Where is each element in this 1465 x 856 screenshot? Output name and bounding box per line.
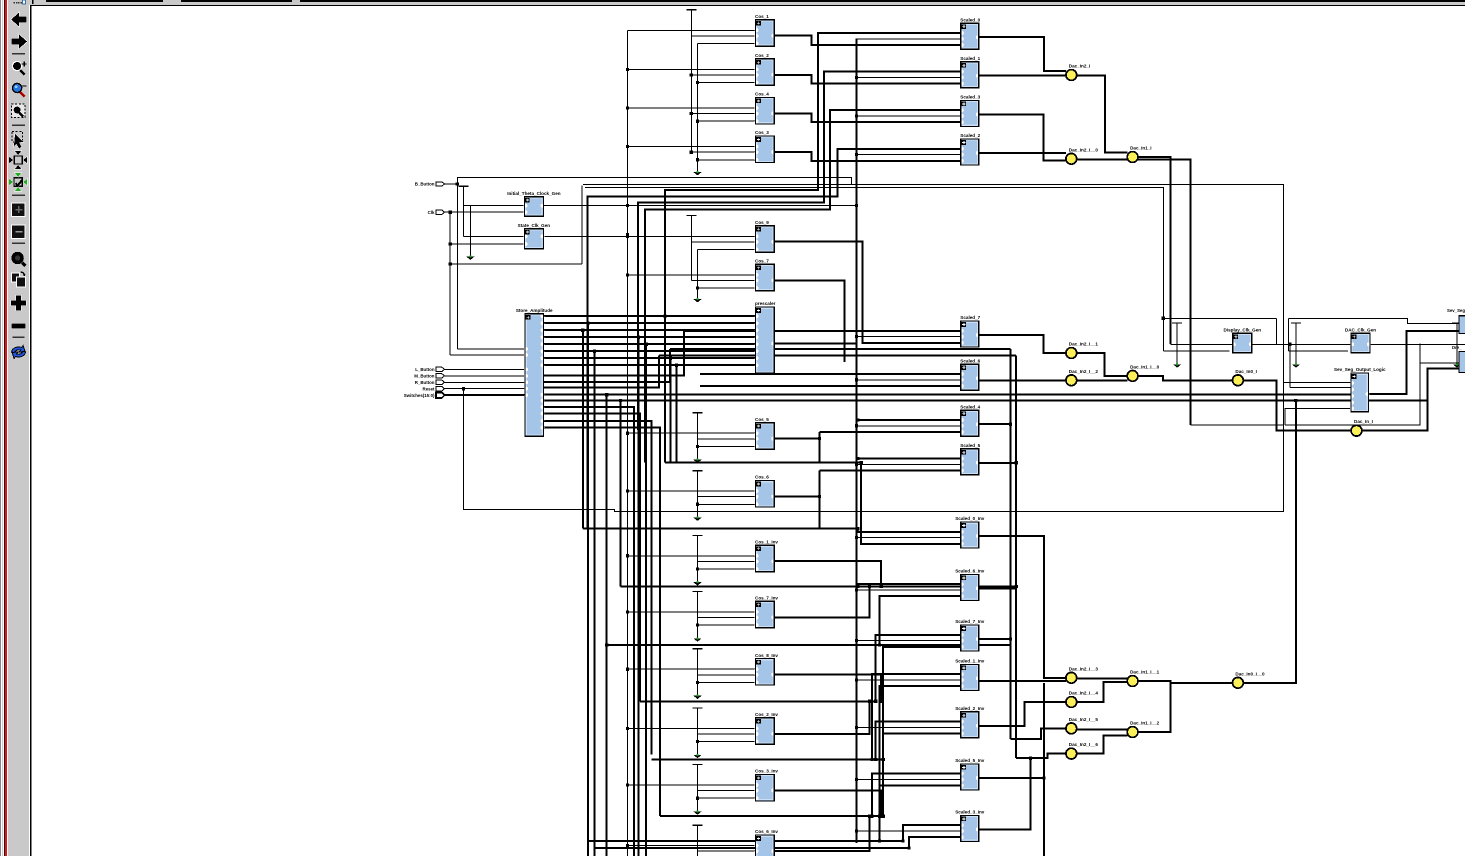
svg-text:Scaled_6: Scaled_6	[960, 358, 980, 363]
wire rail to Cos_3_Inv pin3	[698, 797, 756, 799]
wire rail to Cos_2_Inv pin2	[698, 733, 756, 735]
wire rail with arrow top group	[693, 44, 701, 176]
wire rail to Cos_7_Inv pin2	[698, 617, 756, 619]
wire trunk y=528.7	[583, 528, 858, 530]
block Sev_Seg_Output_Logic	[1334, 367, 1386, 412]
wire branch vertical x=582.8	[582, 330, 584, 529]
wire clock to Scaled_Inv pin2	[856, 779, 960, 781]
svg-text:Dac_In2_I: Dac_In2_I	[1069, 64, 1090, 69]
wire display clock to sevseg pin2	[1289, 344, 1291, 387]
svg-text:Dac_In1_I: Dac_In1_I	[1130, 146, 1151, 151]
svg-text:Dac_In2_I__4: Dac_In2_I__4	[1069, 691, 1099, 696]
toolbar icon: black square plus	[12, 203, 26, 217]
wire y=318.3 dac box	[1289, 317, 1408, 319]
wire Dac_In2_I__3 to Dac_In1_I__1	[1077, 677, 1128, 679]
wire store out to prescaler pin 7	[544, 364, 756, 366]
svg-text:Cos_3_Inv: Cos_3_Inv	[755, 769, 778, 774]
wire staircase to Scaled_1 pin1	[638, 72, 961, 430]
wire clock to Cos_3_Inv pin1	[628, 784, 756, 786]
wire Scaled_0 output	[979, 37, 1066, 71]
wire T-rail Cos_1_Inv	[693, 535, 703, 585]
block Scaled_7	[960, 315, 981, 347]
wire trunk to Scaled_Inv pin3	[883, 647, 961, 760]
junction Reset wire	[462, 387, 465, 390]
svg-text:State_Clk_Gen: State_Clk_Gen	[518, 223, 551, 228]
toolbar icon: refresh	[12, 346, 26, 359]
wire Cos_5 output	[774, 438, 819, 440]
IO marker Dac_In0_I	[1233, 369, 1257, 386]
IO marker Dac_In1_I__2	[1127, 721, 1159, 738]
wire clock to Cos_1_Inv pin1	[628, 555, 756, 557]
block Scaled_1	[960, 56, 981, 88]
junction trunk2	[1294, 399, 1297, 402]
svg-text:Cos_2: Cos_2	[755, 53, 769, 58]
wire into Store_Amplitude upper pin2	[450, 354, 525, 356]
wire T-rail right edge	[1452, 323, 1462, 368]
wire to Scaled_6_Inv pin3	[880, 596, 961, 645]
svg-text:Dac_In1_I__2: Dac_In1_I__2	[1130, 721, 1160, 726]
block Scaled_2_Inv	[955, 706, 985, 738]
wire T-rail Cos_2_Inv	[693, 708, 703, 758]
wire rail to Cos_1_Inv pin2	[698, 560, 756, 562]
wire prescaler output	[774, 343, 856, 345]
wire Dac_In0_I__0 up right	[1243, 400, 1296, 683]
wire clock to Scaled_2 pin2	[856, 154, 960, 156]
wire rail to Cos_2 pin2	[691, 74, 755, 76]
wire Scaled_3 output to Dac_In2_I__0	[979, 114, 1066, 160]
wire Scaled_7_Inv output	[979, 638, 1011, 640]
wire clock to Cos_7_Inv pin1	[628, 611, 756, 613]
wire sevseg pin5	[1285, 409, 1351, 426]
wire clock to Scaled_Inv pin2	[856, 830, 960, 832]
wire trunk to Scaled_Inv pin3	[880, 786, 961, 841]
toolbar icon: zoom out	[13, 83, 27, 96]
small blue icon	[22, 0, 26, 5]
wire along y=264	[450, 263, 582, 265]
IO marker Dac_In_I	[1351, 419, 1373, 436]
wire Cos_1_Inv output	[774, 561, 881, 586]
svg-text:Cos_7_Inv: Cos_7_Inv	[755, 596, 778, 601]
svg-text:L_Button: L_Button	[415, 367, 435, 372]
block Scaled_0	[960, 17, 981, 49]
block Scaled_7_Inv	[955, 619, 985, 651]
svg-text:Scaled_5_Inv: Scaled_5_Inv	[955, 758, 985, 763]
svg-text:Scaled_2_Inv: Scaled_2_Inv	[955, 706, 985, 711]
svg-text:prescaler: prescaler	[755, 301, 776, 306]
block Cos_5	[755, 417, 775, 449]
wire Dac_In2_I__4 to Dac_In1_I__1	[1077, 682, 1128, 702]
wire vertical x=1043.9 lower	[1043, 683, 1045, 856]
wire clock to Cos_2_Inv pin1	[628, 727, 756, 729]
wire rail to Cos_2 pin3	[698, 82, 756, 84]
wire trunk to Scaled_Inv pin1	[903, 825, 961, 841]
IO marker Dac_In2_I__4	[1066, 691, 1098, 708]
wire Dac_In2_I__6 to Dac_In1_I__2	[1077, 736, 1128, 754]
wire Cos_6 output	[774, 496, 819, 498]
wire B_Button vertical	[456, 184, 458, 349]
wire rail to Cos_7_Inv pin3	[698, 624, 756, 626]
svg-text:Dac_In2_I__5: Dac_In2_I__5	[1069, 717, 1099, 722]
svg-text:Cos_8_Inv: Cos_8_Inv	[755, 653, 778, 658]
wire rail to Cos_6_Inv pin2	[698, 850, 756, 852]
wire store out y=420.9	[544, 421, 652, 755]
wire prescaler input 1	[560, 322, 756, 324]
wire trunk to Scaled_0_Inv pin1	[858, 529, 961, 532]
partial block at right edge 2	[1459, 352, 1465, 373]
wire riser to Scaled_5	[819, 471, 821, 529]
wire clock to Scaled_7 pin2	[856, 336, 960, 338]
wire rail to Cos_6 pin3	[698, 503, 756, 505]
toolbar icon: select pointer	[12, 132, 24, 149]
block Cos_3_Inv	[755, 769, 779, 801]
wire thin into Sev_Seg partial block	[1408, 318, 1459, 323]
wire branch vertical x=676.5	[676, 365, 678, 462]
IO marker Dac_In1_I	[1127, 146, 1151, 163]
wire trunk to Scaled_Inv pin1	[876, 635, 961, 702]
wire T-rail dac	[1291, 323, 1301, 368]
IO marker Dac_In2_I__1	[1066, 342, 1098, 359]
wire rail to Cos_4 pin3	[698, 120, 756, 122]
wire trunk y=462.6	[665, 462, 861, 464]
wire Dac_In2_I__2 right	[1077, 379, 1128, 381]
wire rail to Cos_1 pin3	[698, 43, 756, 45]
wire to State_Clk_Gen pin1	[464, 235, 525, 237]
wire T-rail near Initial_Theta	[459, 186, 469, 236]
IO marker Dac_In2_I__6	[1066, 742, 1098, 759]
wire display clock line long	[1170, 343, 1465, 345]
wire rail to Cos_5 pin2	[698, 438, 756, 440]
IO marker Dac_In2_I	[1066, 64, 1090, 81]
wire rail to Cos_8_Inv pin3	[698, 681, 756, 683]
toolbar icon: forward arrow	[12, 35, 28, 49]
dangling wire with arrow near Initial_Theta	[469, 206, 471, 257]
wire store out to prescaler pin 5	[544, 350, 756, 352]
wire T-rail display	[1172, 323, 1182, 368]
svg-text:Switches(15:0): Switches(15:0)	[404, 393, 435, 398]
IO marker Dac_In0_I__0	[1233, 671, 1265, 688]
wire to Scaled_6 pin1	[700, 373, 961, 375]
wire branch vertical x=670.4	[669, 358, 671, 462]
wire T-rail Cos_3_Inv	[693, 765, 703, 815]
wire Dac_In0_I to Dac_In_I	[1243, 380, 1351, 430]
port Switches(15:0)	[404, 392, 445, 398]
partial block Sev_Seg at right edge	[1459, 316, 1465, 334]
wire long trunk y=394.7	[544, 394, 1352, 396]
svg-text:Dac_In2_I__0: Dac_In2_I__0	[1069, 147, 1099, 152]
wire store out to prescaler pin 0	[544, 315, 756, 317]
wire Dac_In2_I__5 to Dac_In1_I__2	[1077, 728, 1128, 730]
block Scaled_5_Inv	[955, 758, 985, 790]
wire Dac_In2_I__0 right	[1077, 159, 1191, 425]
wire clock to Cos_5 pin1	[628, 432, 756, 434]
wire Cos_7 output down	[774, 280, 844, 362]
wire Scaled_0_Inv output to Dac_In2_I__3	[979, 536, 1066, 678]
toolbar icon: zoom selection	[12, 104, 26, 118]
wire T-rail Cos_7_Inv	[693, 592, 703, 642]
svg-text:M_Button: M_Button	[414, 374, 435, 379]
wire rail to Cos_3 pin2	[691, 151, 755, 153]
block Scaled_2	[960, 133, 981, 165]
wire branch x=606.7	[606, 395, 608, 856]
wire prescaler input 3	[560, 336, 756, 338]
wire clock to Scaled_0 pin2	[856, 38, 960, 40]
wire rail to Cos_4 pin2	[691, 113, 755, 115]
wire Clk	[445, 211, 451, 213]
wire staircase to Scaled_3 pin1	[645, 110, 961, 462]
wire trunk to Scaled_Inv pin3	[909, 837, 961, 848]
svg-text:Cos_9: Cos_9	[755, 220, 769, 225]
wire Clk to Initial_Theta pin2	[450, 211, 524, 213]
wire T-rail Cos_6	[693, 471, 703, 521]
wire trunk to Scaled_Inv pin1	[872, 674, 961, 759]
wire display box right side	[1276, 318, 1278, 344]
port M_Button	[414, 374, 444, 379]
wire branch vertical x=594.6	[594, 351, 596, 856]
svg-text:Sev_Seg: Sev_Seg	[1447, 308, 1465, 313]
wire clock distribution rail x=627.6	[627, 30, 629, 856]
wire T-rail Cos_8_Inv	[693, 649, 703, 699]
wire R_Button to Store_Amplitude	[445, 381, 526, 383]
svg-text:Cos_1_Inv: Cos_1_Inv	[755, 539, 778, 544]
wire clock to Scaled_4 pin2	[856, 425, 960, 427]
wire trunk y=349.2	[670, 348, 1010, 350]
port Reset	[423, 386, 445, 391]
wire rail to Cos_9 pin3	[698, 249, 756, 251]
wire Scaled_3_Inv output up	[979, 758, 1031, 829]
wire Cos_4 output to Scaled_3	[774, 113, 961, 122]
separator	[12, 53, 25, 54]
left vertical toolbar background	[0, 0, 31, 856]
wire to Scaled_6 pin3	[700, 385, 961, 387]
junction Scaled_6_Inv	[1015, 585, 1018, 588]
wire store out y=375.4 rise to Scaled_7 pin1	[544, 331, 685, 376]
svg-text:Scaled_3: Scaled_3	[960, 95, 980, 100]
svg-text:Cos_6_Inv: Cos_6_Inv	[755, 829, 778, 834]
wire rail to Cos_2_Inv pin3	[698, 741, 756, 743]
port B_Button	[415, 182, 445, 187]
junction scaled clock rail	[855, 204, 858, 207]
svg-text:Display_Clk_Gen: Display_Clk_Gen	[1224, 328, 1262, 333]
svg-text:Scaled_0: Scaled_0	[960, 17, 980, 22]
wire store out y=413.6	[544, 414, 641, 702]
wire rail to Cos_3 pin3	[698, 159, 756, 161]
wire trunk to Scaled_Inv pin1	[872, 774, 961, 817]
wire Dac_In2_I__1 to Dac_In1_I__0	[1077, 353, 1128, 376]
separator	[12, 195, 25, 196]
svg-text:B_Button: B_Button	[415, 182, 435, 187]
wire clock to Cos_4 pin1	[628, 107, 756, 109]
block State_Clk_Gen	[518, 223, 551, 249]
small blue icon redrawn	[23, 0, 26, 4]
wire Cos_3 output to Scaled_2	[774, 152, 961, 161]
block Scaled_5	[960, 443, 981, 475]
wire Scaled_5 output	[979, 462, 1016, 464]
wire prescaler input 2	[560, 329, 756, 331]
wire Scaled_7 output to Dac_In2_I__1	[979, 335, 1066, 353]
wire Scaled_2 output to Dac_In2_I__0	[979, 152, 1066, 154]
wire clock to Scaled_Inv pin2	[856, 679, 960, 681]
wire reset net to sevseg pin1	[1283, 184, 1285, 382]
wire rail to Cos_7 pin2	[691, 280, 755, 282]
wire clock to Scaled_Inv pin2	[856, 726, 960, 728]
wire to Scaled_5 pin1	[858, 458, 961, 460]
IO marker Dac_In2_I__0	[1066, 147, 1098, 164]
svg-text:Scaled_1_Inv: Scaled_1_Inv	[955, 659, 985, 664]
wire clock to Cos_1 pin1	[628, 29, 756, 31]
wire trunk to Scaled_Inv pin3	[880, 686, 961, 816]
block Cos_7_Inv	[755, 596, 779, 628]
separator	[12, 125, 25, 126]
wire B_Button	[445, 183, 458, 185]
wire trunk y=355.7	[659, 355, 1016, 357]
wire Initial_Theta_Clock_Gen output to clock rails	[543, 205, 856, 207]
svg-text:Scaled_0_Inv: Scaled_0_Inv	[955, 516, 985, 521]
IO marker Dac_In2_I__2	[1066, 369, 1098, 386]
IO marker Dac_In1_I__1	[1127, 670, 1159, 687]
wire branch vertical x=587.9	[587, 323, 589, 856]
wire store out to prescaler pin 3	[544, 336, 756, 338]
toolbar icon: zoom percent	[11, 252, 25, 266]
wire trunk y=586.5	[620, 586, 1016, 588]
wire thin Draw block pin	[1420, 362, 1459, 364]
wire Scaled_4 output	[979, 423, 1011, 425]
wire Dac_In2_I to Dac_In1_I	[1077, 76, 1128, 153]
block Store_Amplitude	[516, 308, 553, 436]
wire to Scaled_4 pin1	[858, 419, 961, 421]
wire riser to Scaled_4	[819, 432, 821, 463]
wire rail to Cos_6 pin2	[698, 496, 756, 498]
wire to Dac_In2_I__5	[1011, 728, 1067, 739]
wire thin link to right edge	[1285, 344, 1420, 426]
wire Cos_2_Inv output	[774, 701, 869, 734]
toolbar icon: minus	[12, 324, 26, 329]
wire Scaled_1_Inv output to Dac_In1_I__1 line	[979, 680, 1066, 682]
block DAC_Clk_Gen	[1345, 328, 1376, 353]
wire Cos_9 output to Scaled_7 pin3	[774, 242, 961, 343]
wire prescaler input 4	[560, 343, 756, 345]
wire top line y=177.4	[457, 177, 851, 184]
wire Cos_3_Inv output	[774, 790, 881, 816]
wire Scaled_1 output to Dac_In2_I	[979, 75, 1066, 77]
wire Sev_Seg output up to Sev_Seg block	[1369, 331, 1460, 394]
wire prescaler input 6	[560, 357, 756, 359]
wire trunk to Scaled_Inv pin1	[876, 722, 961, 760]
wire Cos_8_Inv output	[774, 675, 881, 702]
svg-text:R_Button: R_Button	[415, 380, 435, 385]
wire clock to Cos_6 pin1	[628, 490, 756, 492]
svg-text:Cos_3: Cos_3	[755, 130, 769, 135]
toolbar icon: back arrow	[11, 13, 27, 27]
port R_Button	[415, 380, 445, 385]
wire rail to Cos_5 pin3	[698, 445, 756, 447]
svg-text:Dre_: Dre_	[1452, 345, 1462, 350]
block Scaled_0_Inv	[955, 516, 985, 548]
wire clock to Scaled_Inv pin2	[856, 640, 960, 642]
canvas left border	[30, 5, 31, 856]
wire y=318.3 display box	[1163, 317, 1276, 319]
wire prescaler input 5	[560, 350, 756, 352]
wire Scaled_5_Inv output	[979, 777, 1044, 779]
block Cos_8_Inv	[755, 653, 779, 685]
block Cos_2	[755, 53, 775, 85]
block Scaled_6	[960, 358, 981, 390]
svg-text:Dac_In1_I__1: Dac_In1_I__1	[1130, 670, 1160, 675]
svg-text:Dac_In0_I: Dac_In0_I	[1235, 369, 1256, 374]
wire Switches bus to Store_Amplitude	[445, 394, 526, 396]
svg-text:Cos_6: Cos_6	[755, 475, 769, 480]
wire staircase to Scaled_0 pin1	[665, 33, 961, 463]
block Cos_2_Inv	[755, 712, 779, 744]
wire State_Clk_Gen output	[544, 235, 627, 237]
wire store out to prescaler pin 4	[544, 343, 756, 345]
wire Cos_1 output to Scaled_0	[774, 36, 961, 45]
svg-text:Dac_In2_I__1: Dac_In2_I__1	[1069, 342, 1099, 347]
wire to Scaled_0_Inv pin3	[861, 463, 961, 544]
wire store out y=387.5 rise to trunk 355.7	[544, 356, 659, 388]
wire clock to Scaled_0_Inv pin2	[856, 537, 960, 539]
wire T-rail Cos_9/Cos_7	[686, 216, 696, 281]
svg-text:Dac_In1_I__0: Dac_In1_I__0	[1130, 364, 1160, 369]
block prescaler	[755, 301, 776, 373]
IO marker Dac_In2_I__3	[1066, 666, 1098, 683]
svg-text:Cos_7: Cos_7	[755, 259, 769, 264]
junction clock rail	[626, 204, 629, 207]
svg-text:Scaled_2: Scaled_2	[960, 133, 980, 138]
wire vertical x=1016.2 down	[1015, 356, 1017, 758]
wire store out to prescaler pin 6	[544, 357, 756, 359]
wire Clk vertical	[449, 212, 451, 355]
toolbar drag dots	[14, 2, 21, 4]
wire to State_Clk_Gen pin2	[450, 243, 524, 245]
wire clock to Scaled_1 pin2	[856, 76, 960, 78]
svg-text:Sev_Seg_Output_Logic: Sev_Seg_Output_Logic	[1334, 367, 1386, 372]
block Cos_9	[755, 220, 775, 252]
svg-text:Scaled_7_Inv: Scaled_7_Inv	[955, 619, 985, 624]
wire trunk to Scaled_6_Inv pin1	[858, 584, 961, 586]
wire branch vertical x=646.2	[645, 344, 647, 856]
wire clock to Scaled_6 pin2	[856, 379, 960, 381]
block Cos_7	[755, 259, 775, 291]
wire to Initial_Theta pin1	[464, 205, 525, 207]
wire T-rail top group	[686, 10, 696, 152]
wire rail to Cos_9 pin2	[691, 241, 755, 243]
wire prescaler input 0	[560, 315, 756, 317]
block Cos_3	[755, 130, 775, 162]
wire prescaler input 7	[560, 364, 756, 366]
svg-text:Cos_1: Cos_1	[755, 14, 769, 19]
wire Cos_7_Inv output	[774, 587, 869, 618]
block Scaled_3_Inv	[955, 810, 985, 842]
wire to Dac_In2_I__6	[1016, 754, 1066, 758]
wire Reset to Store_Amplitude	[445, 388, 526, 390]
wire branch x=620.4	[619, 401, 621, 587]
svg-text:Dac_In2_I__2: Dac_In2_I__2	[1069, 369, 1099, 374]
svg-text:Clk: Clk	[428, 210, 435, 215]
wire Dac_In1_I__2 up	[1138, 683, 1171, 732]
block Display_Clk_Gen	[1224, 328, 1262, 353]
separator	[13, 337, 25, 338]
wire trunk y=848	[595, 847, 909, 849]
wire trunk y=816.2	[660, 815, 883, 817]
wire into Store_Amplitude upper pin	[457, 348, 525, 350]
svg-text:Scaled_1: Scaled_1	[960, 56, 980, 61]
svg-text:Scaled_3_Inv: Scaled_3_Inv	[955, 810, 985, 815]
IO marker Dac_In2_I__5	[1066, 717, 1098, 734]
svg-text:DAC_Clk_Gen: DAC_Clk_Gen	[1345, 328, 1376, 333]
block Scaled_1_Inv	[955, 659, 985, 691]
wire Scaled_2_Inv output to Dac_In2_I__4	[979, 702, 1066, 726]
wire long trunk y=400.6	[544, 400, 1296, 402]
